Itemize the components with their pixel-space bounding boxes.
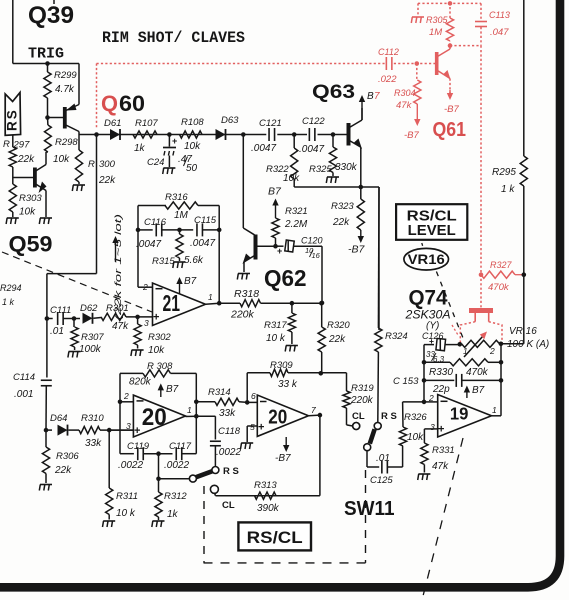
svg-text:1k: 1k — [167, 509, 179, 520]
svg-text:50: 50 — [186, 163, 198, 174]
svg-text:R: R — [88, 159, 95, 170]
svg-text:C117: C117 — [169, 441, 192, 452]
svg-text:-B7: -B7 — [275, 453, 291, 464]
svg-text:R303: R303 — [19, 193, 42, 204]
svg-text:22k: 22k — [328, 334, 346, 345]
svg-text:10k: 10k — [407, 432, 424, 443]
svg-text:7: 7 — [311, 405, 316, 415]
svg-text:.0022: .0022 — [164, 460, 189, 471]
svg-text:R313: R313 — [254, 480, 277, 491]
svg-text:21: 21 — [163, 290, 181, 316]
svg-text:R311: R311 — [116, 491, 138, 502]
svg-text:RS/CL: RS/CL — [247, 529, 303, 547]
svg-text:(Y): (Y) — [426, 321, 439, 332]
svg-text:R325: R325 — [309, 164, 332, 175]
svg-text:VR16: VR16 — [408, 251, 445, 267]
svg-text:+: + — [172, 136, 177, 146]
svg-text:R307: R307 — [81, 332, 104, 343]
svg-text:+: + — [153, 312, 159, 324]
svg-text:33k: 33k — [85, 438, 102, 449]
svg-text:19: 19 — [450, 404, 469, 424]
svg-text:.047: .047 — [490, 27, 509, 38]
svg-text:R324: R324 — [385, 331, 408, 342]
svg-text:R 308: R 308 — [147, 361, 173, 372]
svg-text:SW11: SW11 — [344, 498, 395, 520]
svg-text:Q74: Q74 — [409, 286, 448, 309]
svg-text:22p: 22p — [432, 384, 450, 395]
svg-text:C24: C24 — [147, 157, 164, 168]
svg-text:R309: R309 — [270, 360, 293, 371]
svg-text:.0022: .0022 — [118, 460, 143, 471]
svg-text:R319: R319 — [351, 383, 374, 394]
svg-text:C115: C115 — [194, 215, 217, 226]
svg-text:R326: R326 — [404, 412, 427, 423]
svg-text:Q59: Q59 — [9, 232, 53, 257]
svg-text:D63: D63 — [221, 115, 239, 126]
svg-text:100 K (A): 100 K (A) — [507, 339, 549, 350]
svg-text:RIM SHOT/ CLAVES: RIM SHOT/ CLAVES — [102, 29, 245, 47]
svg-text:1 k: 1 k — [2, 297, 15, 307]
svg-text:R S: R S — [223, 466, 239, 477]
svg-text:6: 6 — [251, 391, 256, 401]
svg-text:C116: C116 — [144, 217, 167, 228]
svg-text:C120: C120 — [301, 236, 323, 246]
svg-text:.0047: .0047 — [251, 143, 276, 154]
svg-text:R108: R108 — [181, 117, 204, 128]
svg-text:R S: R S — [381, 411, 397, 422]
svg-text:.01: .01 — [50, 326, 64, 337]
svg-text:1 k: 1 k — [501, 184, 515, 195]
svg-text:100k: 100k — [79, 344, 102, 355]
svg-text:-B7: -B7 — [444, 104, 460, 115]
svg-text:C122: C122 — [302, 116, 325, 127]
svg-text:22k: 22k — [17, 154, 35, 165]
svg-text:C114: C114 — [13, 372, 35, 383]
svg-text:10 k: 10 k — [266, 333, 286, 344]
svg-text:R323: R323 — [331, 201, 354, 212]
svg-text:C121: C121 — [259, 118, 282, 129]
svg-text:CL: CL — [222, 500, 235, 511]
svg-text:R299: R299 — [54, 70, 77, 81]
svg-text:390k: 390k — [257, 503, 280, 514]
svg-text:220k: 220k — [230, 309, 255, 321]
svg-text:.0047: .0047 — [190, 238, 215, 249]
svg-text:330k: 330k — [335, 162, 358, 173]
svg-text:Q: Q — [101, 91, 118, 116]
svg-text:.0047: .0047 — [136, 239, 161, 250]
svg-text:.0047: .0047 — [299, 144, 324, 155]
svg-text:6.3: 6.3 — [433, 355, 445, 364]
svg-text:B7: B7 — [472, 385, 485, 396]
svg-text:+: + — [258, 422, 264, 434]
svg-text:RS: RS — [5, 108, 20, 131]
svg-text:R294: R294 — [0, 283, 22, 293]
svg-text:B7: B7 — [184, 276, 197, 287]
svg-text:33k: 33k — [219, 408, 236, 419]
svg-text:Q61: Q61 — [433, 119, 467, 141]
svg-text:300: 300 — [99, 159, 116, 170]
svg-text:R: R — [3, 139, 10, 150]
svg-text:10k: 10k — [184, 141, 201, 152]
svg-text:C 153: C 153 — [393, 376, 419, 387]
svg-text:R305: R305 — [426, 15, 449, 25]
svg-text:47k: 47k — [112, 321, 129, 332]
svg-text:Q62: Q62 — [264, 265, 307, 291]
svg-text:R304: R304 — [394, 88, 416, 98]
svg-text:10k: 10k — [148, 345, 165, 356]
svg-text:7: 7 — [374, 91, 380, 102]
svg-text:R315: R315 — [152, 256, 175, 267]
svg-text:20: 20 — [142, 404, 167, 431]
svg-text:5: 5 — [250, 422, 255, 432]
svg-text:1M: 1M — [174, 210, 189, 221]
svg-text:Q39: Q39 — [28, 2, 74, 29]
svg-text:C125: C125 — [370, 475, 393, 486]
svg-text:R330: R330 — [429, 367, 453, 378]
svg-text:VR 16: VR 16 — [509, 326, 537, 337]
svg-text:47k: 47k — [432, 461, 449, 472]
svg-text:1M: 1M — [429, 27, 442, 38]
svg-text:2: 2 — [123, 391, 129, 401]
svg-text:5.6k: 5.6k — [184, 255, 204, 266]
svg-text:R306: R306 — [56, 451, 79, 462]
svg-text:+: + — [277, 246, 282, 256]
svg-text:R298: R298 — [55, 137, 78, 148]
svg-text:33 k: 33 k — [278, 379, 298, 390]
svg-text:3: 3 — [144, 318, 149, 328]
svg-text:4.7k: 4.7k — [55, 84, 75, 95]
svg-text:16: 16 — [312, 251, 321, 260]
svg-text:3: 3 — [430, 422, 435, 432]
svg-text:R295: R295 — [492, 167, 516, 178]
svg-text:10k: 10k — [19, 207, 36, 218]
svg-text:22k: 22k — [332, 217, 350, 228]
svg-text:.022: .022 — [378, 74, 397, 85]
svg-text:R312: R312 — [164, 491, 187, 502]
svg-text:TRIG: TRIG — [28, 46, 64, 63]
svg-text:R317: R317 — [264, 320, 287, 331]
svg-text:C126: C126 — [422, 331, 444, 341]
svg-text:1: 1 — [463, 346, 468, 356]
svg-text:220k: 220k — [350, 395, 374, 406]
svg-text:470k: 470k — [488, 282, 510, 293]
svg-text:D64: D64 — [50, 413, 67, 424]
svg-text:R318: R318 — [234, 288, 259, 300]
svg-text:R316: R316 — [165, 192, 188, 203]
svg-text:.0022: .0022 — [216, 447, 241, 458]
svg-text:22k: 22k — [98, 175, 116, 186]
svg-text:C113: C113 — [489, 10, 510, 20]
svg-text:+: + — [134, 425, 140, 437]
svg-text:R321: R321 — [285, 206, 308, 217]
svg-text:R302: R302 — [148, 332, 171, 343]
svg-text:10k: 10k — [283, 173, 300, 184]
svg-text:D61: D61 — [104, 118, 121, 129]
svg-text:.01: .01 — [376, 453, 390, 464]
svg-text:22k: 22k — [54, 465, 72, 476]
svg-text:R327: R327 — [490, 260, 513, 270]
svg-text:C111: C111 — [50, 305, 71, 316]
svg-text:820k: 820k — [129, 377, 152, 388]
svg-text:LEVEL: LEVEL — [408, 223, 456, 239]
svg-text:C119: C119 — [127, 441, 150, 452]
svg-text:B7: B7 — [268, 186, 282, 198]
svg-text:R301: R301 — [106, 303, 129, 314]
svg-text:R331: R331 — [432, 445, 455, 456]
svg-text:10k: 10k — [53, 154, 70, 165]
svg-text:470k: 470k — [466, 367, 489, 378]
svg-text:B: B — [367, 91, 374, 102]
svg-text:C112: C112 — [378, 47, 399, 57]
svg-text:+: + — [438, 424, 444, 436]
svg-text:-B7: -B7 — [348, 244, 366, 256]
svg-text:60: 60 — [119, 91, 145, 116]
svg-text:D62: D62 — [80, 303, 98, 314]
svg-text:C118: C118 — [218, 426, 241, 437]
svg-text:47k: 47k — [396, 100, 413, 111]
svg-text:CL: CL — [352, 411, 365, 422]
svg-text:2.2M: 2.2M — [284, 219, 308, 230]
svg-text:.001: .001 — [14, 389, 33, 400]
svg-text:1: 1 — [492, 405, 497, 415]
svg-text:Q63: Q63 — [312, 81, 355, 103]
svg-text:1k: 1k — [134, 143, 146, 154]
svg-text:10 k: 10 k — [116, 508, 136, 519]
svg-text:1: 1 — [187, 405, 192, 415]
svg-text:R107: R107 — [135, 118, 158, 129]
svg-text:20: 20 — [268, 406, 287, 428]
svg-text:R320: R320 — [327, 320, 350, 331]
svg-text:2: 2 — [489, 346, 495, 356]
svg-text:B7: B7 — [166, 384, 179, 395]
svg-text:-B7: -B7 — [404, 130, 420, 141]
svg-text:1: 1 — [208, 292, 213, 302]
svg-text:R314: R314 — [208, 387, 231, 398]
svg-text:R310: R310 — [81, 413, 104, 424]
